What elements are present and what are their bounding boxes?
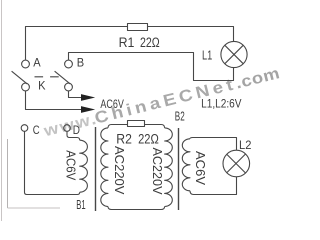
wire B2 secondary top to L2: [190, 138, 237, 151]
wire faint page corner horizontal: [8, 207, 61, 209]
wire R2 to B2 primary top: [145, 125, 165, 128]
terminal D: [64, 125, 71, 132]
transformer B1 primary winding AC6V: [80, 140, 88, 192]
svg-text:R2: R2: [116, 132, 132, 147]
label R1 22ohm: [119, 35, 160, 50]
wire B1 primary bottom to C: [25, 131, 80, 194]
svg-text:C: C: [33, 125, 40, 137]
switch contact B: [65, 60, 73, 68]
lamp L2: [223, 150, 250, 177]
wire B1 secondary top to R2: [108, 125, 128, 128]
svg-text:.com: .com: [234, 63, 282, 92]
wire R1 to L1 top: [148, 27, 234, 42]
terminal C: [21, 125, 28, 132]
svg-text:AC6V: AC6V: [193, 151, 207, 186]
switch pole K2: [65, 83, 73, 91]
svg-text:22Ω: 22Ω: [140, 35, 160, 50]
svg-text:B1: B1: [76, 198, 85, 212]
wire K2 to upper AC terminal: [69, 91, 83, 98]
terminal arrow upper: [81, 94, 95, 101]
switch pole K1: [22, 83, 30, 91]
svg-text:www.: www.: [41, 109, 100, 141]
wire left page edge line: [1, 0, 3, 221]
svg-text:22Ω: 22Ω: [138, 132, 159, 147]
switch blade 2: [55, 71, 71, 84]
svg-text:B2: B2: [175, 108, 185, 123]
svg-text:A: A: [33, 58, 41, 70]
svg-text:AC220V: AC220V: [150, 148, 164, 196]
lamp L1: [221, 41, 247, 67]
wire faint page corner vertical: [7, 139, 9, 208]
switch contact A: [22, 60, 30, 68]
wire D to B1 primary top: [67, 131, 80, 140]
transformer B1 core: [95, 127, 97, 211]
svg-text:L2: L2: [239, 138, 252, 152]
svg-text:AC220V: AC220V: [112, 146, 126, 195]
wire K1 to lower AC terminal: [26, 91, 83, 110]
svg-text:D: D: [73, 125, 80, 137]
svg-text:B: B: [77, 58, 85, 70]
terminal arrow lower: [81, 106, 95, 113]
switch blade 1: [12, 71, 28, 84]
watermark www.ChinaECNet.com: [41, 63, 282, 140]
transformer B2 primary winding AC220V: [165, 128, 173, 207]
resistor R1: [128, 24, 148, 31]
svg-text:K: K: [38, 80, 46, 92]
svg-text:L1,L2:6V: L1,L2:6V: [201, 96, 241, 110]
transformer B1 secondary winding AC220V: [101, 128, 108, 207]
label R2 22ohm: [116, 132, 159, 147]
svg-text:L1: L1: [202, 48, 212, 63]
wire R2 loop bottom: [108, 207, 165, 210]
resistor R2: [128, 121, 145, 127]
svg-text:R1: R1: [119, 35, 135, 50]
transformer B2 core: [178, 128, 180, 210]
transformer B2 secondary winding AC6V: [182, 139, 190, 191]
svg-text:AC6V: AC6V: [64, 150, 78, 181]
wire L2 bottom to B2 secondary bottom: [190, 177, 237, 195]
wire L1 bottom loop back to B: [69, 53, 234, 81]
wire top from A up and right to R1: [26, 27, 128, 60]
svg-text:AC6V: AC6V: [100, 97, 124, 111]
switch gang dashed link: [35, 76, 61, 78]
